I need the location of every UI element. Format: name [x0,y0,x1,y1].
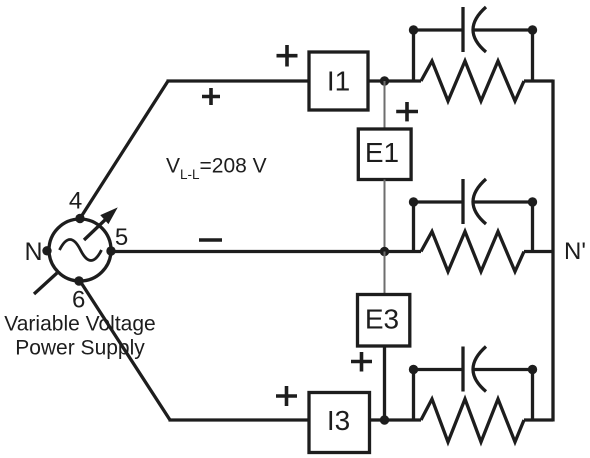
wire: node C to resistor R3 [385,418,422,421]
wire: C3 left lead [414,368,464,371]
junction dot C2 right [528,197,537,206]
svg-text:4: 4 [69,187,82,214]
terminal dot 6 [74,276,83,285]
capacitor C2 straight plate [461,179,464,224]
junction dot C1 right [528,25,537,34]
wire: E1 bottom to node B (gray) [384,180,386,252]
wire: I3 output to node C [370,418,385,421]
wire: R3 right end to bus N' [524,418,553,421]
wire: neutral from terminal 5 to node B [111,250,385,253]
wire: C2 right post [531,201,534,252]
voltmeter E3 [358,295,410,347]
bus wire N' (right vertical) [551,80,554,422]
sine wave inside source [60,240,102,261]
polarity + at I1 input [277,45,298,67]
capacitor C1 straight plate [461,7,464,52]
wire: C2 right lead [475,200,533,203]
voltmeter E1 [358,129,411,180]
svg-text:I1: I1 [327,66,350,97]
ammeter I1 [309,52,368,110]
wire: C1 right post [531,29,534,82]
polarity + at E1 top [396,102,418,121]
terminal dot 5 [106,246,115,255]
svg-text:N: N [24,238,42,266]
svg-text:E3: E3 [365,304,399,335]
capacitor C3 straight plate [461,347,464,392]
junction dot C2 left [409,197,418,206]
capacitor C2 curved plate [473,179,486,224]
wire: C1 left post [412,29,415,82]
wire: C3 right lead [475,368,533,371]
wire: R1 right end to bus N' [524,79,553,82]
junction node C [380,415,389,424]
junction dot C3 right [528,365,537,374]
wire: C3 left post [412,368,415,420]
resistor R3 [421,399,524,442]
svg-text:Power Supply: Power Supply [15,337,145,360]
svg-text:N': N' [564,238,586,265]
svg-text:Variable Voltage: Variable Voltage [4,313,155,336]
variable-adjust arrow head [102,209,117,223]
resistor R1 [421,61,524,101]
svg-text:I3: I3 [327,405,350,436]
junction dot C1 left [409,25,418,34]
svg-text:5: 5 [115,224,128,251]
capacitor C3 curved plate [473,347,486,392]
wire: C2 left lead [414,200,464,203]
variable-adjust arrow shaft [84,219,106,240]
wire: C1 right lead [475,28,533,31]
wire: top horizontal run into ammeter I1 [167,79,310,82]
svg-text:VL-L=208 V: VL-L=208 V [166,155,267,183]
wire: I1 output to node A [368,79,385,82]
junction node B [380,247,389,256]
capacitor C1 curved plate [473,7,486,52]
wire: node A to resistor R1 [385,79,422,82]
wire: node A to voltmeter E1 (gray) [384,81,386,129]
stub wire at lower-left of source [34,273,57,294]
AC source circle (variable voltage power supply) [49,219,111,281]
svg-text:E1: E1 [365,137,399,168]
wire: phase 4 diagonal from terminal 4 to top corner [80,81,168,219]
wire: node B to resistor R2 [385,250,422,253]
polarity + on phase-4 wire [202,88,220,105]
wire: bottom horizontal run into ammeter I3 [169,418,310,421]
junction node A [380,76,389,85]
polarity - on neutral wire [199,238,222,242]
wire: C2 left post [412,201,415,252]
svg-text:6: 6 [72,287,85,314]
terminal dot 4 [75,214,84,223]
terminal dot N [42,246,51,255]
wire: C1 left lead [414,28,464,31]
resistor R2 [421,232,524,272]
wire: E3 bottom to node C [383,346,386,420]
polarity + at I3 input [276,386,297,406]
polarity + at E3 bottom [351,352,372,372]
wire: R2 right end to bus N' [524,250,553,253]
ammeter I3 [309,393,370,453]
wire: phase 6 diagonal from terminal 6 to bottom corner [80,281,170,420]
junction dot C3 left [409,365,418,374]
wire: node B to voltmeter E3 (gray) [384,252,386,295]
wire: C3 right post [531,368,534,420]
